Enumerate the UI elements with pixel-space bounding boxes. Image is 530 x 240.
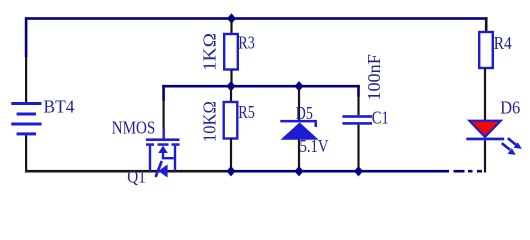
node dot on top rail at R3 (227, 13, 236, 23)
transistor Q1 channel segment right (172, 143, 180, 146)
wire gate riser black (163, 100, 165, 129)
transistor Q1 source diode triangle (points left) (158, 164, 167, 177)
wire bottom rail middle (navy) (232, 170, 425, 173)
wire bottom rail dashed segment 2 (454, 170, 465, 173)
wire R4 corner drop black (485, 17, 488, 32)
transistor Q1 source stub right (174, 146, 176, 171)
transistor Q1 gate bar (146, 138, 180, 141)
LED D6 cathode bar (466, 138, 504, 141)
wire top rail (25, 17, 488, 20)
node dot mid rail at D5 (295, 81, 304, 91)
capacitor C1 top plate (342, 115, 372, 118)
LED D6 triangle (apex down, red) (469, 121, 501, 137)
svg-text:R3: R3 (238, 32, 255, 52)
zener D5 right wing (bends down) (315, 122, 318, 127)
svg-text:Q1: Q1 (127, 166, 146, 186)
node dot bottom rail at D5 (295, 166, 304, 176)
transistor Q1 body arrow (up) (158, 146, 168, 153)
svg-text:10KΩ: 10KΩ (200, 101, 220, 142)
wire left rail upper (navy part) (25, 17, 28, 57)
wire gate riser blue bottom (163, 128, 165, 139)
LED D6 emission arrow 2 (502, 143, 510, 150)
transistor Q1 body elbow horizontal (162, 157, 174, 159)
LED D6 emission arrow 1 (508, 138, 516, 145)
transistor Q1 body stem (162, 153, 164, 159)
svg-text:NMOS: NMOS (112, 118, 156, 138)
wire bottom rail dashed segment 1 (425, 170, 449, 173)
battery BT4 plate short bottom (17, 132, 36, 135)
node dot bottom rail at R5 (227, 166, 236, 176)
wire R4 to D6 (black) (484, 68, 486, 120)
resistor R5 body (224, 102, 238, 139)
svg-text:R5: R5 (238, 102, 255, 122)
wire battery bottom pin (black) (25, 135, 27, 172)
resistor R4 body (479, 32, 493, 68)
svg-text:5.1V: 5.1V (300, 136, 329, 156)
wire gate riser navy top (162, 85, 165, 101)
wire bottom rail dashed segment 4 (477, 170, 482, 173)
wire C1 top pin black (357, 96, 359, 115)
svg-text:1KΩ: 1KΩ (200, 33, 220, 71)
wire C1 bottom pin (357, 125, 359, 171)
resistor R3 body (224, 34, 238, 70)
transistor Q1 source diode slanted bar (154, 161, 163, 178)
svg-text:D6: D6 (500, 97, 520, 117)
wire mid rail (162, 85, 359, 88)
wire battery top pin (black) (25, 56, 27, 102)
node dot bottom rail at C1 (354, 166, 363, 176)
wire D5 anode pin (298, 140, 300, 171)
svg-text:D5: D5 (296, 103, 313, 123)
wire C1 corner riser (357, 85, 360, 97)
battery BT4 plate long (11, 123, 41, 126)
wire R5 bottom pin (230, 139, 232, 171)
wire D6 bottom pin (484, 140, 486, 172)
node dot mid rail at R5 (227, 81, 236, 91)
transistor Q1 channel segment left (146, 143, 154, 146)
capacitor C1 bottom plate (342, 122, 372, 125)
svg-text:BT4: BT4 (44, 97, 75, 117)
svg-text:C1: C1 (372, 108, 389, 128)
transistor Q1 channel segment middle (158, 143, 169, 146)
wire R5 top pin (230, 88, 232, 103)
svg-text:R4: R4 (494, 33, 512, 53)
wire D5 cathode pin (298, 88, 300, 121)
wire bottom rail left (black) (25, 170, 232, 173)
zener D5 cathode bar (280, 120, 317, 123)
wire R3 top pin (230, 20, 232, 35)
battery BT4 plate short (17, 113, 36, 116)
wire bottom rail dashed segment 3 (468, 170, 473, 173)
wire R3 bottom pin (230, 70, 232, 86)
zener D5 triangle (apex up) (280, 122, 318, 139)
transistor Q1 drain stub left (149, 146, 151, 171)
battery BT4 plate long top (11, 102, 41, 105)
svg-text:100nF: 100nF (364, 54, 384, 101)
